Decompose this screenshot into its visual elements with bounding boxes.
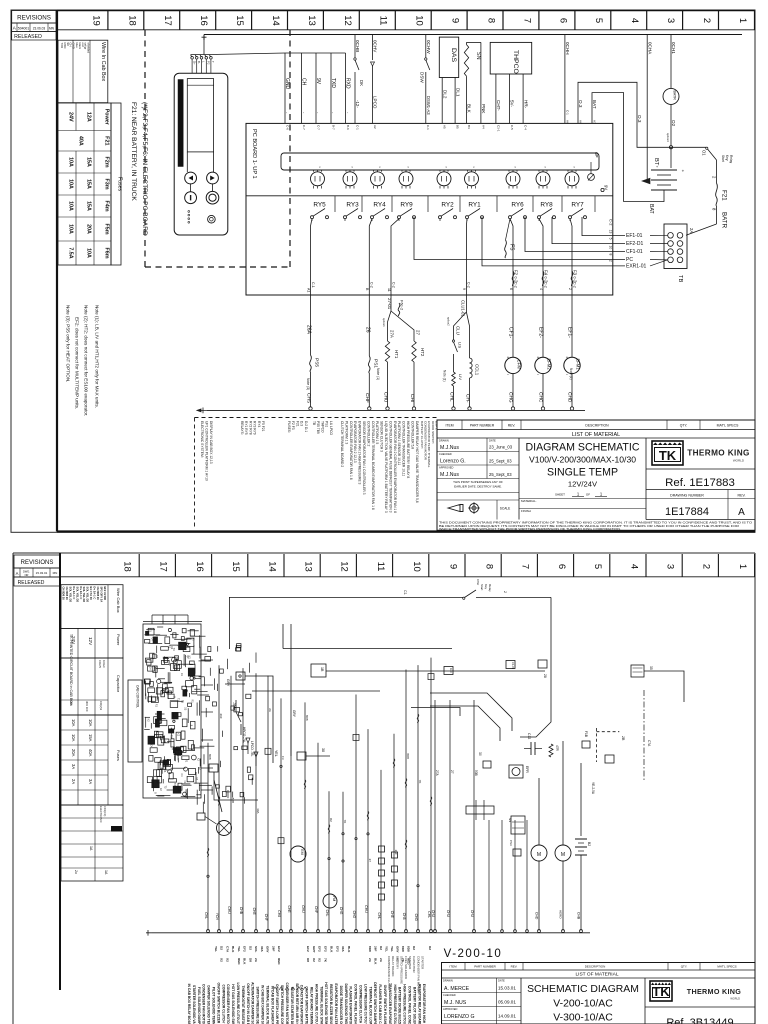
svg-text:CF1-01: CF1-01 [626,249,643,255]
svg-text:Relay: Relay [729,155,733,164]
svg-text:D2: D2 [412,946,416,950]
svg-text:15: 15 [234,15,245,26]
svg-text:PC BOARD 1- UP 1: PC BOARD 1- UP 1 [251,129,257,179]
svg-text:6: 6 [509,288,513,290]
svg-text:30: 30 [478,752,482,756]
svg-text:x: x [573,167,576,169]
svg-text:27A: 27A [390,330,395,338]
svg-text:YEL: YEL [390,946,394,952]
svg-text:DIODE TRANSDUCER ON/OFF SWITCH: DIODE TRANSDUCER ON/OFF SWITCH [339,986,343,1024]
svg-text:7K: 7K [343,820,347,824]
cluster double top edge [143,621,202,623]
svg-text:16: 16 [194,561,205,572]
svg-text:x: x [378,167,381,169]
svg-text:1B: 1B [320,667,324,672]
svg-text:CHL: CHL [325,910,329,917]
svg-text:CHI: CHI [409,394,415,402]
svg-text:C4: C4 [149,744,152,748]
svg-text:K2: K2 [197,758,200,762]
svg-text:CHU: CHU [431,910,435,918]
svg-text:A4: A4 [481,125,485,129]
THPCO wires CHT 5V HR [495,74,497,123]
svg-text:SP2 GRY 2A: SP2 GRY 2A [100,587,104,603]
svg-text:CHECKED: CHECKED [443,993,456,997]
svg-text:Power: Power [104,109,110,126]
svg-text:DESCRIPTION: DESCRIPTION [585,964,606,968]
svg-text:Power: Power [116,634,121,646]
page 2 ruler [60,576,755,578]
svg-text:CONDENSER FAN MOTOR: CONDENSER FAN MOTOR [416,956,420,992]
svg-text:10A: 10A [86,248,92,258]
battery B2 [580,763,582,836]
svg-text:26F: 26F [271,946,275,951]
svg-text:RY5: RY5 [313,202,326,209]
DAS wires DL2 DL1 [441,78,443,124]
svg-text:F21: F21 [104,136,110,145]
svg-text:10A: 10A [71,734,76,742]
svg-text:CHE: CHE [287,906,291,914]
start key relay switch [671,146,706,148]
page 2 revisions block [14,555,60,568]
svg-text:EVAPORATOR FAN 2 12,13: EVAPORATOR FAN 2 12,13 [353,421,357,463]
svg-text:LIQUID INJECTION VALVE PLATFOR: LIQUID INJECTION VALVE PLATFORM 1 BATTER… [384,421,388,513]
svg-text:IN CAB BOX RELAY BOARD PILOT S: IN CAB BOX RELAY BOARD PILOT SOLENOID [187,984,191,1024]
svg-text:Q2: Q2 [186,655,189,659]
svg-text:2: 2 [712,176,717,179]
svg-text:BLK: BLK [347,946,351,953]
svg-text:BATR: BATR [673,91,677,101]
svg-text:11: 11 [375,562,386,572]
svg-text:504001: 504001 [18,26,29,30]
page 2 bottom chassis bus [152,932,590,934]
svg-text:TK PRINTED CIRCUIT BOARD i: TK PRINTED CIRCUIT BOARD in CAB BOX [69,634,73,706]
svg-text:D+ 2A-1 C: D+ 2A-1 C [93,587,97,600]
svg-text:15A: 15A [86,201,92,211]
svg-text:HIGH PRESSURE CUTOUT COMPRESSO: HIGH PRESSURE CUTOUT COMPRESSOR CLUTCH D… [314,984,318,1024]
svg-text:D2: D2 [428,946,432,950]
svg-text:RY4: RY4 [373,202,386,209]
svg-text:2B: 2B [621,736,625,741]
wire PNK [480,42,482,123]
svg-text:F3: F3 [281,756,285,760]
svg-text:B2: B2 [587,842,591,846]
remote controller HMI [174,73,228,235]
svg-text:PILOT SOLENOID TERMINAL BLOCK: PILOT SOLENOID TERMINAL BLOCK SENSOR RET… [212,987,216,1024]
svg-text:7.5A: 7.5A [68,247,74,258]
svg-text:M.J.Nus: M.J.Nus [440,445,459,451]
svg-text:X2: X2 [220,958,224,962]
svg-text:18: 18 [126,15,137,26]
wire 27-01 heaters HT1 HT2 [390,294,392,311]
svg-text:HIGH PRESSURE CUTOUT CONTROL P: HIGH PRESSURE CUTOUT CONTROL PANEL START… [393,985,397,1024]
svg-text:RY4: RY4 [257,421,261,428]
svg-text:R1: R1 [191,700,194,704]
svg-text:CONTROL PANEL FLASHER RELAY BO: CONTROL PANEL FLASHER RELAY BOARD [354,984,358,1024]
svg-text:DL2: DL2 [442,90,447,99]
svg-text:REV.: REV. [737,493,745,497]
right staircase wire 2 [430,693,512,731]
svg-text:DSW: DSW [476,579,480,586]
svg-text:50B: 50B [474,770,478,776]
svg-text:C-1: C-1 [311,282,315,288]
svg-text:X2: X2 [226,958,230,962]
page 1 revisions block [12,11,56,24]
svg-text:Ref. 1E17883: Ref. 1E17883 [665,477,735,489]
svg-text:A2: A2 [373,125,377,129]
svg-text:LU LPCO: LU LPCO [329,421,333,436]
svg-text:DISPLAY IN CAB BOX: DISPLAY IN CAB BOX 12,13 [209,421,213,464]
controller display window [187,79,213,152]
svg-text:23.06.03: 23.06.03 [33,26,46,30]
svg-text:CLUTCH TERMINAL BOARD 2: CLUTCH TERMINAL BOARD 2 [340,421,344,467]
svg-text:EXPT.: EXPT. [434,421,438,430]
svg-text:8: 8 [153,792,156,794]
svg-text:D.2 D.1: D.2 D.1 [304,421,308,432]
svg-text:-: - [285,112,290,114]
svg-text:EF1-01: EF1-01 [626,233,643,239]
svg-text:BLK: BLK [329,946,333,953]
wire 0CHV with LPCO switch [372,35,374,61]
svg-text:14.09.01: 14.09.01 [498,1014,516,1019]
svg-text:+: + [537,355,540,360]
svg-text:EF2: EF2 [335,946,339,952]
pad PS3 [513,849,521,856]
svg-text:T: T [211,61,215,63]
svg-text:EVAPORATOR FAN HIGH PRESSURE C: EVAPORATOR FAN HIGH PRESSURE CUTOUT HOT … [422,984,426,1024]
svg-text:24V: 24V [68,112,74,122]
svg-text:Fuses: Fuses [117,177,123,192]
svg-text:x: x [407,167,410,169]
svg-text:SOL: SOL [254,946,258,952]
svg-text:13: 13 [303,561,314,572]
svg-text:PNK: PNK [481,104,486,114]
wire 0.3 loop [578,82,671,147]
svg-text:-: - [331,112,336,114]
svg-text:T3: T3 [164,786,167,789]
svg-text:MATERIAL.: MATERIAL. [521,499,537,503]
svg-text:DOOR SWITCH: DOOR SWITCH [431,421,435,443]
svg-text:D2: D2 [220,946,224,950]
svg-text:IN CAB BOX DAMPER SOLENOID FLA: IN CAB BOX DAMPER SOLENOID FLASHER [261,985,265,1024]
svg-text:8: 8 [712,208,717,211]
svg-text:D+ 2A-1 C: D+ 2A-1 C [72,587,76,600]
svg-text:17: 17 [162,15,173,26]
svg-text:CHL: CHL [427,911,431,918]
svg-text:7K: 7K [324,958,328,963]
svg-text:RELAY BOARD TERMINAL BLOCK BUZ: RELAY BOARD TERMINAL BLOCK BUZZER [310,987,314,1024]
svg-text:05.09.01: 05.09.01 [498,1000,516,1005]
svg-text:ON/OFF SWITCH BATTERY PILOT SO: ON/OFF SWITCH BATTERY PILOT SOLENOID [305,986,309,1024]
svg-text:9: 9 [462,288,466,290]
svg-text:F4m: F4m [104,200,110,211]
svg-text:DSW: DSW [420,72,425,83]
svg-text:EF2: EF2 [277,946,281,952]
pad 30 [483,761,491,768]
svg-text:CHF: CHF [314,906,318,913]
svg-text:PC: PC [626,257,633,263]
svg-text:CHG: CHG [508,392,514,403]
svg-text:O.3: O.3 [578,100,583,108]
svg-text:CONTROLLER 2: CONTROLLER 2 [366,421,370,446]
TB feed wires [582,217,625,236]
page 2 drawing border [59,553,61,990]
svg-text:25_Sept_03: 25_Sept_03 [489,458,512,463]
wire 291 column [290,624,292,756]
svg-text:10A: 10A [68,201,74,211]
svg-text:15A: 15A [88,734,93,742]
svg-text:Start: Start [480,584,484,591]
svg-text:TERMINAL BLOCK ALTERNATOR EVAP: TERMINAL BLOCK ALTERNATOR EVAPORATOR FAN [265,986,269,1024]
svg-text:YE-2-5A: YE-2-5A [591,782,595,795]
wire 0CHA [646,35,648,181]
svg-text:2x: 2x [74,870,78,874]
svg-text:BLK: BLK [467,104,472,114]
svg-text:O.3: O.3 [637,115,642,123]
svg-text:2: 2 [701,18,712,23]
svg-text:8D8: 8D8 [368,946,372,952]
svg-text:0CHH: 0CHH [565,42,570,55]
svg-text:APPROVED: APPROVED [439,465,454,469]
svg-text:EF2 X2 RD: EF2 X2 RD [103,587,107,601]
svg-text:GND: GND [72,43,76,49]
svg-text:B5: B5 [456,125,460,129]
svg-text:C-2: C-2 [467,282,471,288]
svg-text:HPCO -7A-: HPCO -7A- [242,727,246,743]
svg-text:STARTER: STARTER [421,956,425,969]
svg-text:CONTROLLER GENERAL FUSE DEFROS: CONTROLLER GENERAL FUSE DEFROST TERMINAT… [388,421,392,513]
svg-text:LOW PRESSURE CUTOUT CAPACITOR: LOW PRESSURE CUTOUT CAPACITOR DEFROST SW… [363,984,367,1024]
svg-text:CHB: CHB [239,907,243,915]
svg-text:F2m: F2m [104,156,110,167]
svg-text:CH-: CH- [465,394,471,403]
svg-text:8D8: 8D8 [407,946,411,952]
svg-text:REV.: REV. [508,424,516,428]
svg-text:15A: 15A [86,157,92,167]
svg-text:15.03.01: 15.03.01 [36,571,48,575]
svg-text:C4: C4 [180,774,183,778]
svg-text:8D8: 8D8 [406,753,410,759]
svg-text:8D8: 8D8 [401,946,405,952]
svg-text:COMPRESSOR CLUTCH: COMPRESSOR CLUTCH [387,956,391,989]
svg-text:RY3 RY9: RY3 RY9 [253,421,257,435]
svg-text:CLU: CLU [456,326,461,335]
svg-text:9V: 9V [604,185,609,190]
svg-text:RY7: RY7 [571,202,584,209]
svg-text:V-300-10/AC: V-300-10/AC [553,1013,613,1024]
svg-text:SWITCH PRESSURE: SWITCH PRESSURE [400,956,404,984]
svg-text:HT1: HT1 [394,350,399,359]
svg-text:12A: 12A [86,112,92,122]
svg-text:+: + [507,355,510,360]
svg-text:16: 16 [198,15,209,26]
svg-text:A6: A6 [578,120,582,124]
pad squares columns [379,846,385,852]
svg-text:LPCO -7B-: LPCO -7B- [250,741,254,757]
wire 0CHH [564,35,566,124]
svg-text:2: 2 [503,591,507,593]
svg-text:4: 4 [628,564,639,569]
svg-text:38: 38 [321,748,325,752]
svg-text:C-2: C-2 [572,282,576,288]
svg-text:SENSOR EVAPORATOR FAN 1 CONTRO: SENSOR EVAPORATOR FAN 1 CONTROLLER 3 [362,421,366,495]
main PCB cluster [143,624,201,798]
svg-text:C-1: C-1 [355,125,359,130]
svg-text:Ref. 3B13449: Ref. 3B13449 [666,1017,733,1024]
pad by bridge [197,813,205,820]
svg-text:X2: X2 [312,958,316,962]
svg-text:X2: X2 [318,958,322,962]
svg-text:Wire Cab Box: Wire Cab Box [116,588,121,613]
resistor 47R [549,744,553,757]
svg-text:10: 10 [411,561,422,572]
svg-text:F21: NEAR BATTERY, IN TRUCK: F21: NEAR BATTERY, IN TRUCK [130,102,137,201]
svg-text:CHU: CHU [301,905,305,913]
svg-text:26F: 26F [374,946,378,951]
svg-text:PS1: PS1 [372,359,378,368]
svg-text:CHU: CHU [382,392,388,403]
svg-text:PART NUMBER: PART NUMBER [474,964,496,968]
svg-text:3: 3 [665,564,676,569]
svg-text:RY1 RY5: RY1 RY5 [244,421,248,435]
svg-text:Note (2): Note (2) [569,368,573,380]
thermo king logo [646,468,755,470]
svg-text:C4: C4 [148,667,151,671]
dashed feeder [595,728,597,762]
svg-text:R1: R1 [180,673,183,677]
svg-text:Start: Start [721,155,725,162]
svg-text:CHU: CHU [446,910,450,918]
svg-text:x: x [472,167,475,169]
svg-text:CHU: CHU [470,910,474,918]
top bus wire [204,34,742,36]
svg-text:CH: CH [301,78,307,86]
svg-text:F2 F3: F2 F3 [291,421,295,430]
svg-text:SCALE: SCALE [500,507,510,511]
svg-text:27-01: 27-01 [387,298,392,310]
svg-text:BLK: BLK [243,958,247,965]
svg-text:x: x [351,167,354,169]
svg-text:QTY.: QTY. [681,964,688,968]
svg-text:GRY: GRY [266,946,270,954]
svg-text:WORLD: WORLD [730,997,740,1001]
svg-text:K2: K2 [195,777,198,781]
svg-text:R1: R1 [167,645,170,649]
svg-text:18: 18 [122,561,133,572]
evaporator fan motor EFM1 [571,294,573,357]
svg-text:2: 2 [609,260,613,262]
PC board outer box [246,123,613,295]
svg-text:2A: 2A [254,958,258,963]
svg-text:CHF: CHF [364,393,370,403]
svg-text:2A: 2A [368,958,372,963]
svg-text:20A: 20A [86,224,92,234]
svg-text:CLU1-01: CLU1-01 [460,300,465,317]
svg-text:D3: D3 [184,707,187,711]
TK emblem [650,981,672,1001]
evaporator fan motor EFM2 [542,294,544,357]
svg-text:C-1: C-1 [426,125,430,130]
svg-text:C-1: C-1 [565,110,569,115]
svg-text:C-6: C-6 [285,125,289,130]
relay box PS [511,816,525,834]
wire GRY segment [239,675,241,677]
svg-text:DWG.: DWG. [23,570,30,574]
svg-text:CHD: CHD [567,392,573,403]
svg-text:COMPRESSOR CLUTCH TERMINAL BLO: COMPRESSOR CLUTCH TERMINAL BLOCK FUEL SO… [221,985,225,1024]
projection symbols [448,505,463,512]
svg-text:A7: A7 [592,120,596,124]
svg-text:D8: D8 [248,958,252,962]
svg-text:NR: NR [25,573,29,577]
terminal block TB [664,224,687,269]
right staircase wire 1 [520,597,551,737]
svg-text:K2: K2 [159,788,162,792]
THPCO box [490,42,532,74]
svg-text:7: 7 [521,18,532,23]
svg-text:splice3: splice3 [666,133,670,142]
svg-text:C7A: C7A [226,946,230,953]
svg-text:LOW PRESSURE CUTOUT HOT GAS SO: LOW PRESSURE CUTOUT HOT GAS SOLENOID EVA… [236,983,240,1024]
svg-text:28: 28 [543,674,547,678]
svg-text:PART NUMBER: PART NUMBER [470,424,495,428]
svg-text:FUSES:: FUSES: [287,421,291,433]
PC board inner bus rect [281,153,599,170]
page 1 sheet frame [11,10,755,532]
svg-text:DRAWN: DRAWN [439,438,449,442]
svg-text:CHD: CHD [535,912,539,920]
svg-text:RED: RED [237,958,241,965]
svg-text:CH 8D8 26: CH 8D8 26 [96,587,100,601]
svg-text:D2: D2 [329,818,333,822]
svg-text:D3: D3 [163,769,166,773]
svg-text:2: 2 [568,288,572,290]
svg-text:FINISH: FINISH [521,509,531,513]
svg-text:C-5: C-5 [510,125,514,130]
svg-text:CONTROLLER TERMINAL BOARD EVAP: CONTROLLER TERMINAL BOARD EVAPORATOR FAN… [371,421,375,510]
svg-text:10: 10 [609,246,613,250]
svg-text:STARTER: STARTER [408,956,412,969]
svg-text:10A: 10A [88,719,93,727]
svg-text:PS1: PS1 [325,421,329,427]
svg-text:HR-: HR- [523,100,528,109]
svg-text:EF2: does not connect for MULT: EF2: does not connect for MULTITEMP unit… [75,317,80,409]
svg-text:CD1(C3): CD1(C3) [103,806,107,816]
svg-text:PLATFORM 1 5: PLATFORM 1 5 [375,421,379,444]
controller buttons [185,172,197,184]
svg-text:B4: B4 [467,125,471,129]
svg-text:CHL: CHL [204,912,208,919]
svg-text:PS3: PS3 [509,840,513,846]
svg-text:K2: K2 [146,719,149,723]
svg-text:TERMINAL BLOCK LOW PRESSURE CU: TERMINAL BLOCK LOW PRESSURE CUTOUT HIGH … [368,987,372,1024]
svg-text:BLK: BLK [374,958,378,965]
svg-text:14: 14 [266,561,277,572]
svg-text:1A: 1A [89,846,93,851]
svg-text:Note (1): Note (1) [376,368,380,380]
svg-text:26A: 26A [306,325,312,335]
svg-text:THERMO KING: THERMO KING [687,987,742,996]
svg-text:EXR1-01: EXR1-01 [626,263,647,269]
svg-text:TK: TK [652,984,670,999]
relay EFR [509,765,523,778]
svg-text:ON/OFF SWITCH LOW PRESSURE CUT: ON/OFF SWITCH LOW PRESSURE CUTOUT ALTERN… [275,984,279,1024]
svg-text:F5m: F5m [104,223,110,234]
wire in cab box table [58,40,108,102]
sensor SN resistor [464,45,468,77]
svg-text:THPCO: THPCO [320,421,324,433]
svg-text:ON/OFF SWITCH IN CAB BOX PILOT: ON/OFF SWITCH IN CAB BOX PILOT SOLENOID [246,983,250,1024]
svg-text:2A: 2A [71,779,76,784]
